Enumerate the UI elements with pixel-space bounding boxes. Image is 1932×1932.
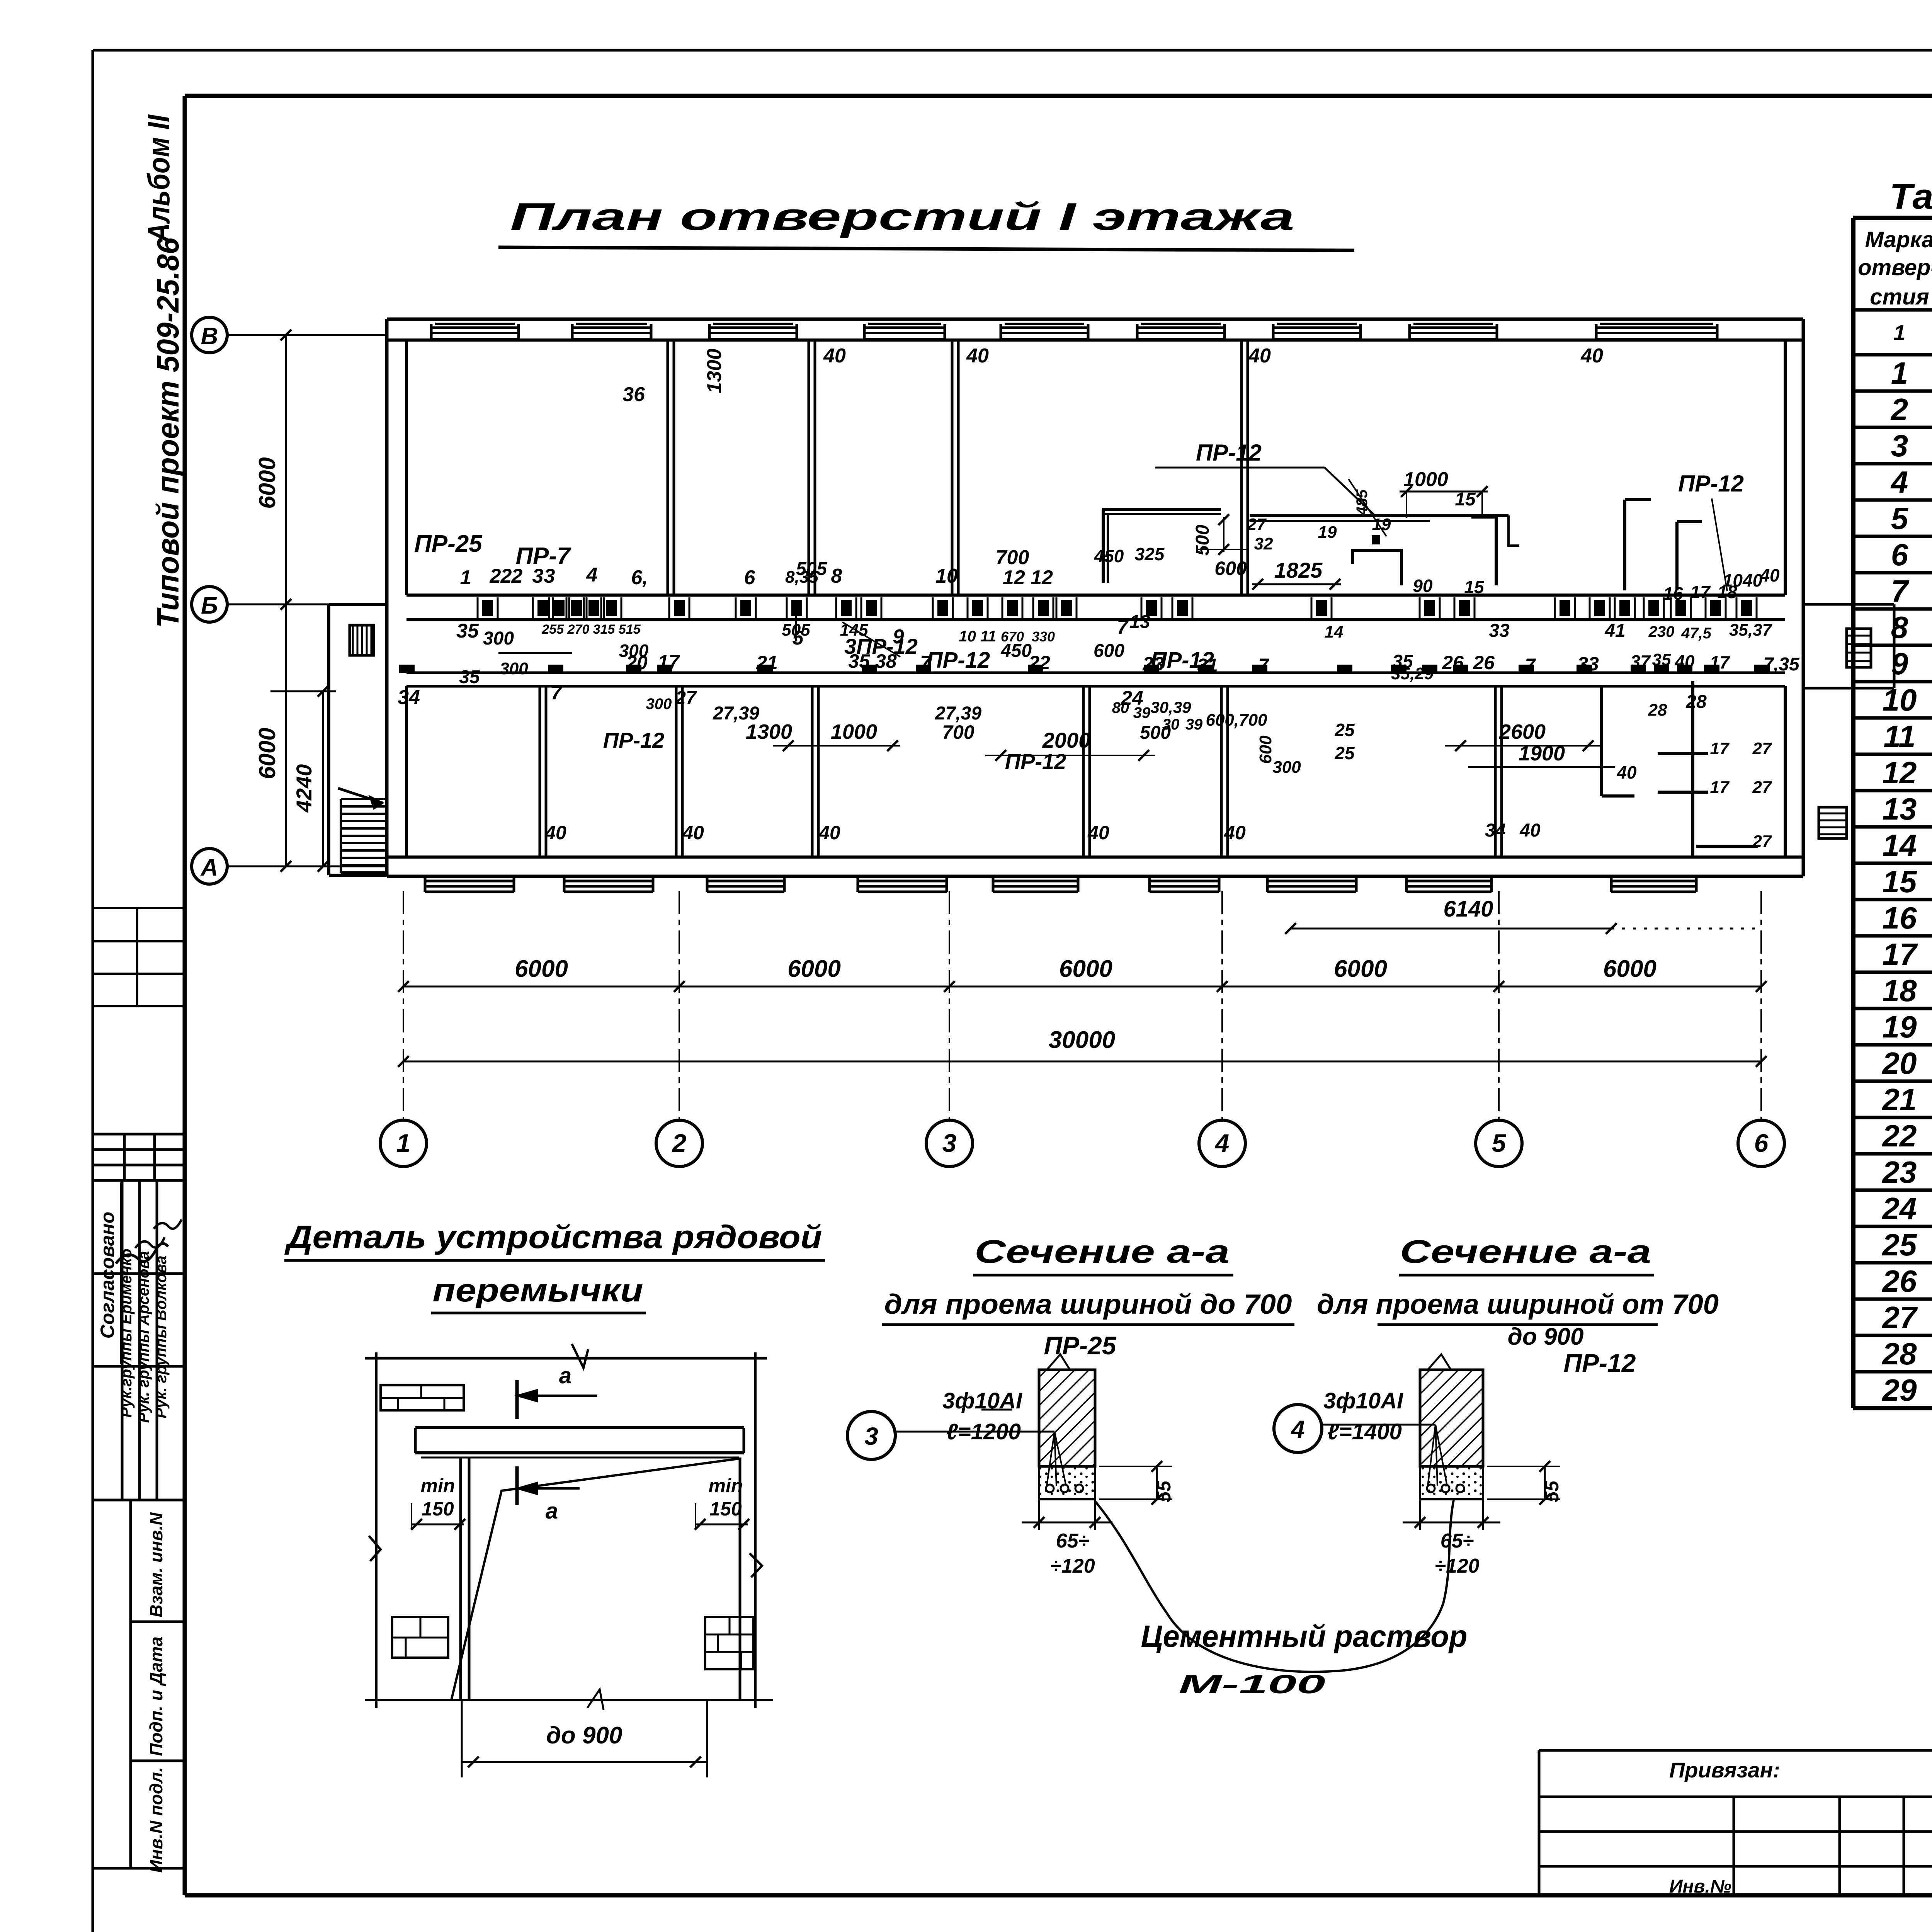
svg-text:Привязан:: Привязан: <box>1669 1758 1780 1782</box>
svg-text:ПР-12: ПР-12 <box>927 648 990 673</box>
svg-text:6000: 6000 <box>254 728 280 779</box>
svg-text:17: 17 <box>1690 582 1711 602</box>
svg-text:40: 40 <box>1224 822 1246 844</box>
svg-text:37: 37 <box>1630 651 1651 672</box>
svg-text:14: 14 <box>1883 828 1917 862</box>
svg-text:1: 1 <box>1891 356 1908 390</box>
svg-text:26: 26 <box>1442 652 1464 673</box>
svg-text:28: 28 <box>1648 701 1667 719</box>
svg-text:3: 3 <box>1891 429 1908 463</box>
svg-text:1: 1 <box>1893 320 1905 345</box>
svg-text:6: 6 <box>1754 1129 1769 1157</box>
svg-text:28: 28 <box>1685 692 1707 712</box>
svg-text:35,29: 35,29 <box>1391 664 1434 683</box>
svg-text:27: 27 <box>1752 778 1772 797</box>
svg-text:27,39: 27,39 <box>935 703 981 724</box>
svg-text:ℓ=1400: ℓ=1400 <box>1327 1419 1402 1444</box>
svg-text:5: 5 <box>1891 501 1909 536</box>
svg-text:6140: 6140 <box>1443 896 1493 922</box>
svg-text:4: 4 <box>586 564 598 586</box>
svg-text:до 900: до 900 <box>546 1722 622 1749</box>
svg-text:3ф10АI: 3ф10АI <box>1323 1388 1404 1413</box>
svg-text:25: 25 <box>1334 720 1355 740</box>
svg-text:6000: 6000 <box>1603 956 1656 982</box>
svg-text:150: 150 <box>709 1498 742 1520</box>
svg-text:20: 20 <box>626 652 648 673</box>
svg-text:Подп. и Дата: Подп. и Дата <box>146 1636 166 1756</box>
svg-text:9: 9 <box>893 626 904 648</box>
svg-text:6000: 6000 <box>515 956 568 982</box>
svg-text:ПР-25: ПР-25 <box>414 531 483 557</box>
svg-text:1300: 1300 <box>703 349 726 393</box>
svg-text:700: 700 <box>942 721 975 743</box>
svg-text:2: 2 <box>1890 392 1908 427</box>
svg-text:7: 7 <box>551 682 563 704</box>
svg-text:27: 27 <box>1752 739 1772 758</box>
svg-text:ПР-12: ПР-12 <box>1005 749 1066 774</box>
svg-text:ПР-12: ПР-12 <box>1678 471 1744 497</box>
svg-text:17: 17 <box>1710 739 1730 758</box>
svg-text:Б: Б <box>201 592 218 619</box>
svg-text:27: 27 <box>1882 1300 1918 1335</box>
svg-text:7: 7 <box>920 652 932 673</box>
svg-text:15: 15 <box>1883 864 1917 899</box>
svg-text:22: 22 <box>1882 1119 1917 1153</box>
svg-text:65÷: 65÷ <box>1440 1530 1474 1552</box>
svg-text:40: 40 <box>1248 345 1271 367</box>
svg-text:40: 40 <box>1580 345 1603 367</box>
svg-text:40: 40 <box>966 345 989 367</box>
svg-text:Деталь устройства рядовой: Деталь устройства рядовой <box>284 1219 822 1255</box>
svg-text:7: 7 <box>1891 574 1910 608</box>
svg-text:для проема шириной до 700: для проема шириной до 700 <box>884 1289 1292 1320</box>
svg-text:9: 9 <box>1891 646 1908 681</box>
svg-text:300: 300 <box>646 696 672 713</box>
svg-text:26: 26 <box>1882 1264 1917 1298</box>
svg-text:Инв.№: Инв.№ <box>1669 1876 1731 1897</box>
svg-text:10: 10 <box>1883 683 1917 717</box>
svg-text:700: 700 <box>996 546 1029 569</box>
svg-text:1040: 1040 <box>1723 570 1763 590</box>
svg-text:27: 27 <box>1752 832 1772 851</box>
svg-text:500: 500 <box>1192 525 1213 556</box>
svg-text:4240: 4240 <box>292 764 316 813</box>
svg-text:47,5: 47,5 <box>1681 625 1712 642</box>
svg-text:30,39: 30,39 <box>1150 698 1191 716</box>
svg-text:40: 40 <box>544 822 566 844</box>
svg-text:а: а <box>546 1498 558 1524</box>
svg-text:6000: 6000 <box>787 956 841 982</box>
svg-text:35: 35 <box>456 620 479 642</box>
svg-text:20: 20 <box>1882 1046 1917 1080</box>
svg-text:Согласовано: Согласовано <box>97 1212 118 1339</box>
svg-text:10 11: 10 11 <box>959 628 996 645</box>
svg-text:стия: стия <box>1870 284 1929 310</box>
svg-text:24: 24 <box>1882 1191 1917 1226</box>
svg-text:10: 10 <box>935 565 958 587</box>
svg-text:600,700: 600,700 <box>1206 711 1267 730</box>
svg-text:450: 450 <box>1094 546 1124 566</box>
svg-text:Цементный раствор: Цементный раствор <box>1141 1619 1468 1653</box>
svg-text:40: 40 <box>818 822 840 844</box>
svg-text:7,35: 7,35 <box>1763 654 1800 675</box>
svg-text:19: 19 <box>1883 1010 1917 1044</box>
svg-text:12: 12 <box>1883 755 1917 790</box>
svg-text:18: 18 <box>1883 973 1917 1008</box>
svg-text:27: 27 <box>675 688 697 708</box>
svg-text:7: 7 <box>1525 655 1536 676</box>
svg-text:ПР-12: ПР-12 <box>1196 440 1262 466</box>
svg-text:Сечение а-а: Сечение а-а <box>1400 1233 1651 1270</box>
svg-text:Взам. инв.N: Взам. инв.N <box>146 1512 166 1617</box>
svg-text:Марка: Марка <box>1865 227 1932 252</box>
svg-text:13: 13 <box>1129 612 1150 632</box>
svg-text:14: 14 <box>1325 622 1344 641</box>
svg-text:21: 21 <box>756 652 778 673</box>
svg-text:12 12: 12 12 <box>1003 566 1053 589</box>
svg-text:30000: 30000 <box>1049 1027 1115 1053</box>
svg-text:90: 90 <box>1413 576 1433 596</box>
svg-text:В: В <box>201 323 218 350</box>
svg-text:55: 55 <box>1541 1480 1563 1502</box>
svg-text:min: min <box>421 1475 455 1497</box>
svg-text:Типовой проект 509-25.86: Типовой проект 509-25.86 <box>151 238 185 628</box>
svg-text:33: 33 <box>1489 621 1510 641</box>
svg-text:6000: 6000 <box>1059 956 1112 982</box>
svg-text:300: 300 <box>1272 758 1301 777</box>
svg-text:40: 40 <box>1087 822 1109 844</box>
svg-text:300: 300 <box>500 659 528 678</box>
svg-text:перемычки: перемычки <box>433 1272 643 1308</box>
svg-text:23: 23 <box>1882 1155 1917 1189</box>
svg-text:39: 39 <box>1185 716 1203 733</box>
svg-text:1: 1 <box>396 1129 411 1157</box>
svg-text:4: 4 <box>1214 1129 1230 1157</box>
svg-text:а: а <box>559 1363 571 1388</box>
svg-text:6000: 6000 <box>254 457 280 509</box>
svg-text:505: 505 <box>796 559 827 579</box>
svg-text:29: 29 <box>1882 1373 1917 1407</box>
svg-text:34: 34 <box>1485 820 1505 841</box>
svg-text:17: 17 <box>1710 778 1730 797</box>
svg-text:40: 40 <box>1616 762 1637 782</box>
svg-text:35: 35 <box>459 667 480 687</box>
svg-text:600: 600 <box>1094 641 1124 661</box>
svg-text:÷120: ÷120 <box>1050 1555 1095 1577</box>
svg-text:25: 25 <box>1334 743 1355 763</box>
svg-text:13: 13 <box>1883 792 1917 826</box>
svg-text:отвер-: отвер- <box>1858 255 1932 280</box>
svg-text:6000: 6000 <box>1334 956 1387 982</box>
svg-text:27: 27 <box>1247 515 1267 534</box>
svg-text:1300: 1300 <box>746 720 792 743</box>
svg-text:32: 32 <box>1254 534 1273 553</box>
svg-text:для проема шириной от 700: для проема шириной от 700 <box>1317 1289 1719 1320</box>
svg-text:2: 2 <box>490 565 501 587</box>
svg-text:35: 35 <box>1652 650 1671 669</box>
svg-text:40: 40 <box>682 822 704 844</box>
svg-text:Рук. группы Арсенова: Рук. группы Арсенова <box>135 1251 152 1423</box>
svg-text:16: 16 <box>1663 583 1683 604</box>
svg-text:ПР-12: ПР-12 <box>603 728 665 752</box>
svg-text:до 900: до 900 <box>1508 1323 1584 1350</box>
svg-text:Сечение а-а: Сечение а-а <box>975 1233 1230 1270</box>
svg-text:17: 17 <box>1709 652 1730 672</box>
svg-text:Рук.группы Ерименко: Рук.группы Ерименко <box>118 1248 135 1418</box>
svg-text:1000: 1000 <box>831 720 877 743</box>
svg-text:4: 4 <box>1290 1415 1305 1443</box>
svg-text:55: 55 <box>1153 1480 1175 1502</box>
svg-text:300: 300 <box>483 628 514 649</box>
svg-text:План отверстий I этажа: План отверстий I этажа <box>510 195 1294 238</box>
svg-text:150: 150 <box>422 1498 454 1520</box>
svg-text:8: 8 <box>1891 610 1908 645</box>
svg-text:31: 31 <box>1197 655 1218 676</box>
svg-text:2: 2 <box>500 565 512 587</box>
svg-text:1825: 1825 <box>1274 558 1323 582</box>
svg-text:2: 2 <box>672 1129 687 1157</box>
svg-text:Альбом II: Альбом II <box>141 114 176 243</box>
svg-text:Инв.N подл.: Инв.N подл. <box>146 1767 166 1872</box>
svg-text:33: 33 <box>1577 653 1599 675</box>
svg-text:35,37: 35,37 <box>1729 621 1773 639</box>
svg-text:6,: 6, <box>631 566 648 589</box>
svg-text:330: 330 <box>1032 629 1055 645</box>
svg-text:17: 17 <box>1883 937 1918 971</box>
svg-text:ПР-25: ПР-25 <box>1044 1331 1117 1360</box>
svg-text:11: 11 <box>1883 719 1915 753</box>
svg-text:255 270 315 515: 255 270 315 515 <box>541 622 641 637</box>
svg-text:26: 26 <box>1473 652 1495 673</box>
svg-text:2000: 2000 <box>1042 728 1091 752</box>
svg-text:34: 34 <box>398 686 420 709</box>
svg-text:Рук. группы Волкова: Рук. группы Волкова <box>153 1255 170 1418</box>
svg-text:А: А <box>200 854 218 881</box>
svg-text:28: 28 <box>1882 1337 1917 1371</box>
svg-text:6: 6 <box>744 566 756 589</box>
svg-text:Таблица отверстий: Таблица отверстий <box>1889 177 1932 216</box>
svg-text:7: 7 <box>1117 616 1129 638</box>
svg-text:15: 15 <box>1464 577 1485 597</box>
svg-text:3: 3 <box>544 565 555 587</box>
svg-text:40: 40 <box>1674 651 1695 672</box>
svg-text:40: 40 <box>823 345 846 367</box>
svg-text:3: 3 <box>942 1129 957 1157</box>
svg-text:24: 24 <box>1121 687 1143 709</box>
svg-text:4: 4 <box>1890 465 1908 499</box>
svg-text:40: 40 <box>1759 565 1780 585</box>
svg-text:450: 450 <box>1000 641 1032 661</box>
svg-text:ПР-12: ПР-12 <box>1564 1349 1636 1377</box>
svg-text:5: 5 <box>1492 1129 1507 1157</box>
svg-text:6: 6 <box>1891 537 1908 572</box>
svg-text:2600: 2600 <box>1499 720 1546 743</box>
svg-text:16: 16 <box>1883 901 1917 935</box>
svg-text:40: 40 <box>1519 820 1541 841</box>
svg-text:35,38: 35,38 <box>848 650 896 672</box>
svg-text:36: 36 <box>622 383 645 406</box>
svg-text:325: 325 <box>1135 544 1165 564</box>
svg-text:÷120: ÷120 <box>1435 1555 1479 1577</box>
svg-text:41: 41 <box>1604 621 1625 641</box>
svg-text:7: 7 <box>1259 655 1270 676</box>
svg-text:23: 23 <box>1142 653 1164 675</box>
svg-text:22: 22 <box>1028 652 1050 673</box>
svg-text:230: 230 <box>1648 623 1675 640</box>
svg-text:25: 25 <box>1882 1228 1917 1262</box>
svg-text:65÷: 65÷ <box>1056 1530 1089 1552</box>
svg-text:М-100: М-100 <box>1179 1670 1325 1699</box>
svg-text:600: 600 <box>1214 558 1247 579</box>
svg-text:ℓ=1200: ℓ=1200 <box>946 1419 1021 1444</box>
svg-text:1: 1 <box>460 566 471 589</box>
svg-text:min: min <box>709 1475 743 1497</box>
svg-text:30: 30 <box>1162 716 1180 733</box>
svg-text:19: 19 <box>1318 523 1337 542</box>
svg-text:2: 2 <box>511 565 523 587</box>
svg-text:17: 17 <box>658 651 680 673</box>
svg-text:21: 21 <box>1882 1082 1917 1117</box>
svg-text:8: 8 <box>831 565 842 587</box>
svg-text:3: 3 <box>532 565 544 587</box>
svg-text:3: 3 <box>864 1422 878 1450</box>
